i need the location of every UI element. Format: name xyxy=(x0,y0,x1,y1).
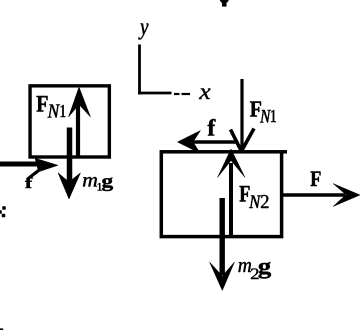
label N subscript (F_N2) xyxy=(249,196,261,208)
axis label y xyxy=(138,23,148,39)
block m2 xyxy=(161,152,281,237)
label 2 subscript (m2g) xyxy=(251,269,259,279)
x-axis line xyxy=(138,92,171,95)
weight arrow m1g: shaft xyxy=(67,128,73,186)
label m (m2g) xyxy=(239,262,252,272)
y-axis line xyxy=(138,45,141,95)
stray mark at bottom-left corner xyxy=(0,328,3,330)
block m1 xyxy=(30,86,109,157)
label F (F_N2) xyxy=(240,186,250,202)
label m (m1g) xyxy=(83,177,97,186)
friction arrow f right on m1: head xyxy=(35,158,58,172)
label g (m1g) xyxy=(102,178,113,191)
x-axis dash 1 xyxy=(174,93,180,95)
label g (m2g) xyxy=(259,262,272,279)
label 1 subscript (F_N1 on m2) xyxy=(271,110,276,122)
normal reaction arrow F_N1 down on m2: head xyxy=(231,130,242,152)
applied force arrow F right: head xyxy=(333,184,360,207)
normal force arrow F_N2 up: head xyxy=(218,149,246,178)
label F (applied force) xyxy=(311,172,321,186)
partial arrowhead at top edge xyxy=(220,0,229,6)
label F (F_N1 block m1) xyxy=(37,96,48,112)
normal force arrow F_N1 up on m1: head xyxy=(69,87,91,117)
normal force arrow F_N1 up on m1: shaft xyxy=(76,100,80,158)
axis label x xyxy=(199,89,210,99)
normal force arrow F_N2 up: shaft xyxy=(229,163,233,237)
friction arrow f (m1): lower barb trail xyxy=(27,171,39,180)
label 2 subscript (F_N2) xyxy=(261,195,269,208)
x-axis dash 2 xyxy=(182,93,191,95)
label F (F_N1 on m2) xyxy=(250,101,261,116)
label 1 subscript (F_N1 block m1) xyxy=(60,105,65,117)
weight arrow m2g: head xyxy=(210,262,235,291)
label N subscript (F_N1 on m2) xyxy=(260,110,271,122)
label 1 subscript (m1g) xyxy=(98,183,102,191)
friction arrow f left on m2: shaft xyxy=(190,140,236,143)
friction arrow f right on m1: shaft xyxy=(0,162,44,167)
friction arrow f left on m2: head xyxy=(178,131,201,154)
label f (friction on m1) xyxy=(25,177,33,188)
label f (friction on m2) xyxy=(208,119,216,135)
colon artifact at left margin xyxy=(3,207,6,210)
applied force arrow F right: shaft xyxy=(283,193,345,197)
normal reaction arrow F_N1 down on m2: shaft xyxy=(240,79,243,150)
weight arrow m2g: shaft xyxy=(219,198,224,275)
block m2 top-right overshoot xyxy=(282,150,287,154)
weight arrow m1g: head xyxy=(58,173,81,199)
label N subscript (F_N1 block m1) xyxy=(48,105,61,118)
